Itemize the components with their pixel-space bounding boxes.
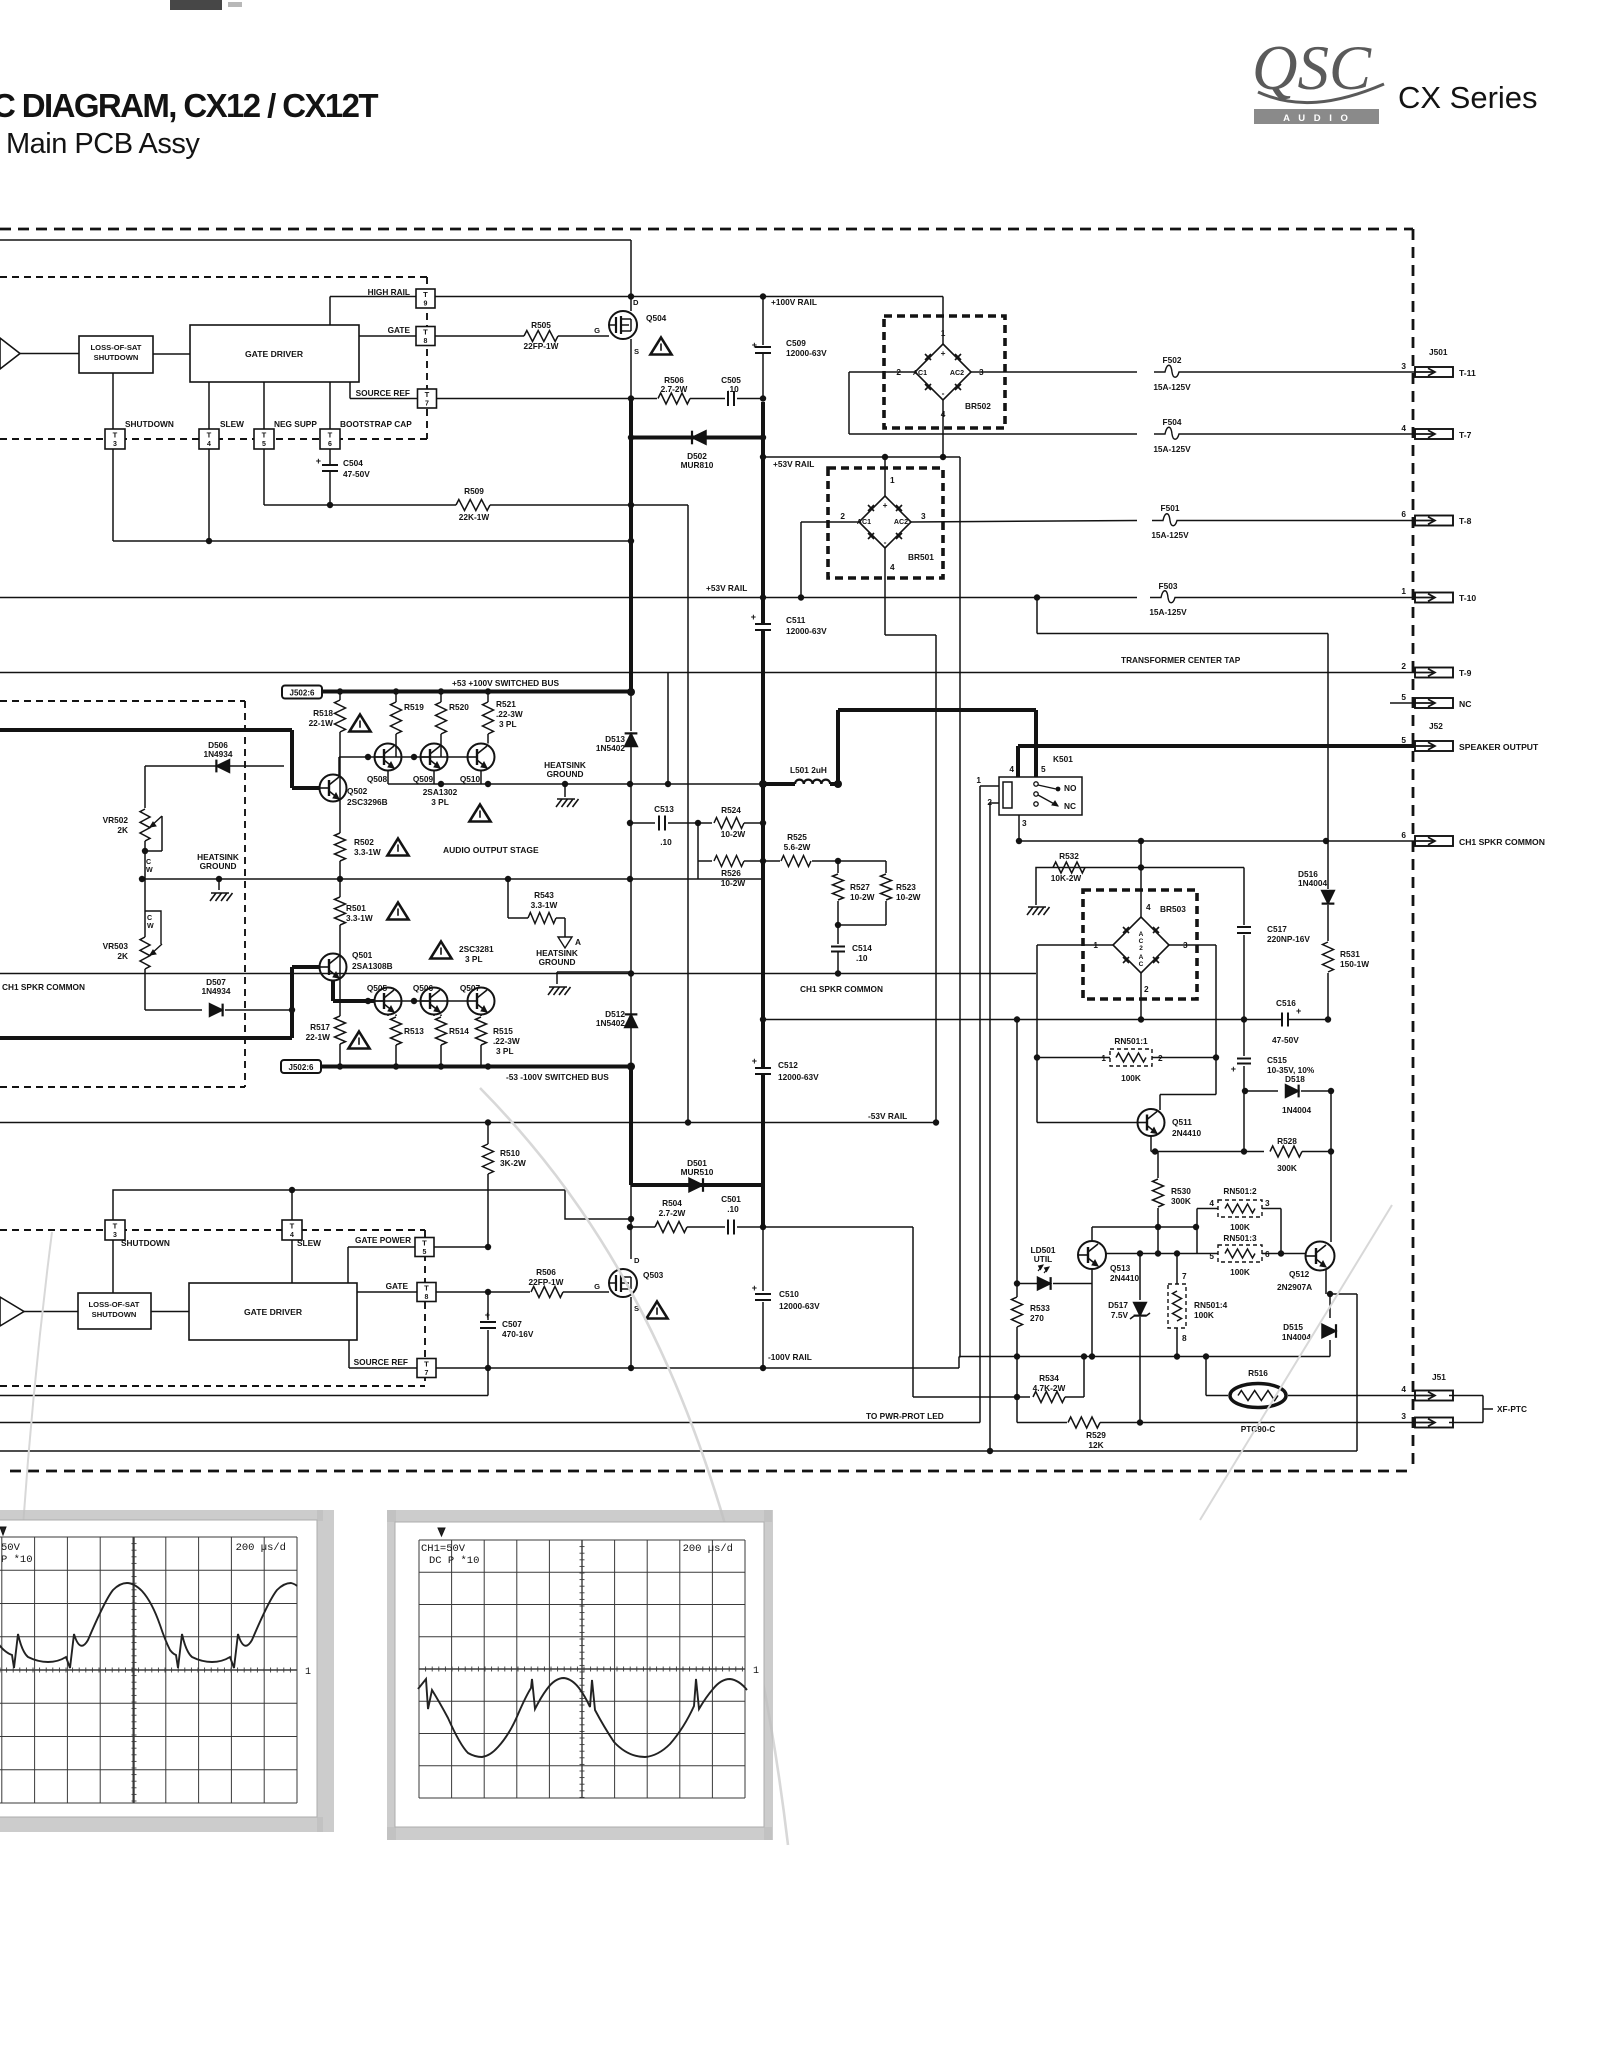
terminal T7 bottom — [417, 1359, 436, 1378]
svg-text:R505: R505 — [531, 320, 551, 330]
svg-text:12000-63V: 12000-63V — [778, 1072, 819, 1082]
emitter stubs Q505-Q507 — [387, 1015, 389, 1017]
resistor R510 — [487, 1123, 489, 1145]
potentiometer VR503 — [144, 879, 146, 937]
svg-text:CX Series: CX Series — [1398, 80, 1538, 115]
svg-text:GROUND: GROUND — [539, 957, 576, 967]
svg-text:BOOTSTRAP CAP: BOOTSTRAP CAP — [340, 419, 412, 429]
J502:6 connector label bottom — [281, 1060, 321, 1073]
svg-text:C511: C511 — [786, 615, 806, 625]
svg-text:2K: 2K — [117, 825, 128, 835]
terminal T3 bottom — [105, 1220, 125, 1240]
svg-text:4: 4 — [1401, 423, 1406, 433]
thick +53V feed vertical — [761, 402, 765, 1227]
svg-text:R516: R516 — [1248, 1368, 1268, 1378]
svg-text:+: + — [752, 340, 757, 350]
terminal T8 — [416, 327, 435, 346]
svg-text:100K: 100K — [1194, 1310, 1214, 1320]
svg-text:R502: R502 — [354, 837, 374, 847]
svg-text:2: 2 — [840, 511, 845, 521]
bridge BR503 dashed box — [1083, 890, 1197, 999]
svg-text:3.3-1W: 3.3-1W — [346, 913, 373, 923]
svg-text:15A-125V: 15A-125V — [1149, 607, 1187, 617]
svg-text:R533: R533 — [1030, 1303, 1050, 1313]
svg-text:Q512: Q512 — [1289, 1269, 1310, 1279]
transistor Q505 — [375, 988, 402, 1015]
top-left scan smudge — [170, 0, 222, 10]
BR503 diamond — [1113, 917, 1169, 973]
svg-text:200 µs/d: 200 µs/d — [683, 1543, 733, 1555]
thick vertical Q504 source bus — [629, 399, 633, 693]
svg-text:1: 1 — [976, 775, 981, 785]
transistor Q506 — [421, 988, 448, 1015]
svg-text:3: 3 — [1265, 1198, 1270, 1208]
svg-text:GATE POWER: GATE POWER — [355, 1235, 411, 1245]
bottom long wire 2 pwr-prot — [0, 1422, 980, 1424]
svg-text:1N4004: 1N4004 — [1282, 1105, 1311, 1115]
svg-text:AC2: AC2 — [950, 369, 964, 377]
transformer center tap wire — [0, 672, 1415, 674]
svg-text:.10: .10 — [727, 1204, 739, 1214]
svg-text:R517: R517 — [310, 1022, 330, 1032]
svg-text:1N4934: 1N4934 — [201, 986, 230, 996]
resistor network RN501:2 — [1196, 1209, 1198, 1254]
svg-text:D518: D518 — [1285, 1074, 1305, 1084]
vertical x1017 upper — [1016, 1020, 1018, 1284]
diode D512 — [625, 1014, 638, 1027]
svg-text:C509: C509 — [786, 338, 806, 348]
svg-text:R526: R526 — [721, 868, 741, 878]
svg-text:7: 7 — [425, 1370, 429, 1377]
svg-text:Q501: Q501 — [352, 950, 373, 960]
resistor R501 — [335, 897, 346, 925]
node A marker — [558, 937, 572, 948]
svg-text:W: W — [146, 866, 153, 874]
svg-text:5: 5 — [1401, 692, 1406, 702]
svg-text:AC1: AC1 — [913, 369, 927, 377]
XF-PTC bracket — [1449, 1395, 1483, 1397]
svg-text:9: 9 — [424, 301, 428, 308]
fuse F501 — [1152, 514, 1188, 526]
transistor Q507 — [468, 988, 495, 1015]
svg-text:2: 2 — [1144, 984, 1149, 994]
vertical 698 link — [697, 861, 699, 879]
photo leader line right — [1200, 1205, 1392, 1520]
svg-text:12000-63V: 12000-63V — [786, 626, 827, 636]
capacitor C504 — [329, 449, 331, 465]
svg-text:SHUTDOWN: SHUTDOWN — [125, 419, 174, 429]
potentiometer VR502 — [144, 766, 146, 808]
terminal T4 bottom — [282, 1220, 302, 1240]
svg-text:AC2: AC2 — [894, 518, 908, 526]
BR502 diamond — [915, 344, 971, 400]
svg-text:100K: 100K — [1230, 1222, 1250, 1232]
resistor R523 — [838, 860, 886, 862]
svg-text:1: 1 — [305, 1667, 311, 1678]
svg-text:+: + — [941, 348, 946, 358]
svg-text:5: 5 — [262, 441, 266, 448]
relay K501 box — [999, 777, 1082, 815]
svg-text:47-50V: 47-50V — [343, 469, 370, 479]
svg-text:4: 4 — [1146, 902, 1151, 912]
svg-text:C DIAGRAM, CX12 / CX12T: C DIAGRAM, CX12 / CX12T — [0, 87, 378, 124]
svg-text:200 µs/d: 200 µs/d — [236, 1542, 286, 1554]
svg-text:+: + — [752, 1283, 757, 1293]
svg-text:270: 270 — [1030, 1313, 1044, 1323]
wire F502 to J501-3 — [1190, 371, 1415, 373]
svg-text:3: 3 — [113, 1232, 117, 1239]
svg-text:2K: 2K — [117, 951, 128, 961]
svg-text:C504: C504 — [343, 458, 363, 468]
warning triangle Q504 — [650, 338, 671, 355]
svg-text:Q507: Q507 — [460, 983, 481, 993]
dashed row bottom T3 T4 — [0, 1229, 425, 1231]
connector J52 pin5 speaker output — [1415, 741, 1453, 751]
svg-text:8: 8 — [1182, 1333, 1187, 1343]
svg-text:S: S — [634, 347, 639, 356]
svg-text:T-9: T-9 — [1459, 668, 1472, 678]
svg-text:Q508: Q508 — [367, 774, 388, 784]
oscilloscope photo 2 — [387, 1510, 772, 1522]
svg-text:BR503: BR503 — [1160, 904, 1186, 914]
svg-text:2SC3296B: 2SC3296B — [347, 797, 388, 807]
svg-text:CH1 SPKR COMMON: CH1 SPKR COMMON — [2, 982, 85, 992]
svg-text:1N4934: 1N4934 — [203, 749, 232, 759]
svg-text:T: T — [207, 431, 212, 440]
oscilloscope photo 2 trigger mark — [438, 1528, 445, 1536]
svg-text:Q504: Q504 — [646, 313, 667, 323]
capacitor C513 line — [630, 822, 655, 824]
svg-text:GATE DRIVER: GATE DRIVER — [245, 349, 304, 359]
svg-text:2N2907A: 2N2907A — [1277, 1282, 1312, 1292]
svg-text:NEG SUPP: NEG SUPP — [274, 419, 317, 429]
capacitor C514 — [837, 925, 839, 944]
transistor Q513 — [1078, 1241, 1106, 1269]
svg-text:C507: C507 — [502, 1319, 522, 1329]
svg-text:1N4004: 1N4004 — [1298, 878, 1327, 888]
diode D518 — [1245, 1090, 1278, 1092]
svg-text:NC: NC — [1459, 699, 1471, 709]
wire C505 to +100V node — [737, 398, 763, 400]
gate driver box ch2 — [189, 1283, 357, 1340]
wire triangle to LOS — [20, 353, 79, 355]
svg-text:R543: R543 — [534, 890, 554, 900]
svg-text:CH1=50V: CH1=50V — [421, 1543, 466, 1555]
svg-text:T-11: T-11 — [1459, 368, 1476, 378]
svg-text:22FP-1W: 22FP-1W — [523, 341, 558, 351]
warning triangle R517 — [348, 1032, 369, 1049]
svg-text:-: - — [942, 388, 945, 398]
resistor R531 — [1323, 942, 1334, 972]
oscilloscope photo 1 — [0, 1510, 323, 1521]
svg-text:6: 6 — [328, 441, 332, 448]
svg-text:.10: .10 — [660, 837, 672, 847]
svg-text:QSC: QSC — [1252, 33, 1372, 103]
svg-text:VR502: VR502 — [103, 815, 129, 825]
svg-text:SOURCE REF: SOURCE REF — [354, 1357, 408, 1367]
svg-text:R531: R531 — [1340, 949, 1360, 959]
svg-text:Q509: Q509 — [413, 774, 434, 784]
svg-text:R518: R518 — [313, 708, 333, 718]
terminal T5 bottom — [415, 1238, 434, 1257]
diode D515 — [1329, 1294, 1331, 1318]
svg-text:-100V RAIL: -100V RAIL — [768, 1352, 812, 1362]
svg-text:T: T — [113, 431, 118, 440]
svg-text:D: D — [633, 298, 639, 307]
transistor Q512 — [1306, 1242, 1335, 1271]
wire BR502 pin2 to F504 — [849, 371, 915, 373]
svg-text:C514: C514 — [852, 943, 872, 953]
wire T9 to Q504 drain node — [435, 296, 631, 298]
svg-text:T: T — [424, 1360, 429, 1369]
svg-text:47-50V: 47-50V — [1272, 1035, 1299, 1045]
svg-text:D517: D517 — [1108, 1300, 1128, 1310]
svg-text:100K: 100K — [1121, 1073, 1141, 1083]
svg-text:-53V RAIL: -53V RAIL — [868, 1111, 907, 1121]
warning triangle R502 — [387, 839, 408, 856]
svg-text:1N5402: 1N5402 — [596, 1018, 625, 1028]
svg-text:J52: J52 — [1429, 721, 1443, 731]
resistor R504 — [630, 1226, 655, 1228]
svg-text:T-10: T-10 — [1459, 593, 1476, 603]
relay coil — [1003, 782, 1012, 808]
svg-text:1: 1 — [753, 1666, 759, 1677]
svg-text:2.7-2W: 2.7-2W — [659, 1208, 686, 1218]
svg-text:10K-2W: 10K-2W — [1051, 873, 1082, 883]
svg-text:C: C — [1139, 938, 1144, 945]
svg-text:7: 7 — [425, 401, 429, 408]
resistor R509 — [456, 500, 490, 511]
svg-text:F504: F504 — [1163, 417, 1182, 427]
-100V rail jog — [958, 1357, 960, 1369]
capacitor C505 — [729, 391, 733, 406]
resistor R515 — [480, 1015, 482, 1017]
Q511 base wire — [1037, 1122, 1137, 1124]
svg-text:SPEAKER OUTPUT: SPEAKER OUTPUT — [1459, 742, 1539, 752]
transistor Q511 — [1138, 1109, 1165, 1136]
capacitor C510 — [755, 1295, 771, 1299]
thick drive wire to Q501 — [0, 1036, 292, 1040]
svg-text:T: T — [425, 390, 430, 399]
svg-text:J51: J51 — [1432, 1372, 1446, 1382]
resistor R525 — [763, 860, 780, 862]
wire top rail to Q504 drain — [0, 239, 631, 241]
wires T3 T4 down — [112, 1240, 114, 1294]
photo leader arc middle — [480, 1088, 788, 1845]
svg-text:2SC3281: 2SC3281 — [459, 944, 494, 954]
svg-text:2SA1302: 2SA1302 — [423, 787, 458, 797]
svg-text:+53V RAIL: +53V RAIL — [706, 583, 747, 593]
svg-text:A: A — [575, 937, 581, 947]
svg-text:3: 3 — [921, 511, 926, 521]
warning triangle R501 — [387, 903, 408, 920]
svg-text:R532: R532 — [1059, 851, 1079, 861]
svg-text:L501 2uH: L501 2uH — [790, 765, 827, 775]
wire LOS to gate driver — [153, 353, 190, 355]
svg-text:5: 5 — [423, 1249, 427, 1256]
svg-text:22-1W: 22-1W — [306, 1032, 331, 1042]
svg-text:+: + — [752, 1056, 757, 1066]
svg-text:BR501: BR501 — [908, 552, 934, 562]
diode D506 — [290, 766, 294, 788]
protection common bus — [959, 1356, 1330, 1358]
inner dashed box ch1 gate driver — [0, 276, 427, 278]
wire Q504 source to R506 — [631, 398, 657, 400]
vertical transformer tap branch — [667, 673, 669, 785]
resistor R514 — [440, 1015, 442, 1017]
CH1 spkr common wire — [0, 973, 1036, 975]
svg-text:TRANSFORMER CENTER TAP: TRANSFORMER CENTER TAP — [1121, 655, 1241, 665]
svg-text:DC P *10: DC P *10 — [429, 1555, 479, 1567]
svg-text:D: D — [634, 1256, 640, 1265]
svg-text:15A-125V: 15A-125V — [1153, 444, 1191, 454]
svg-text:R519: R519 — [404, 702, 424, 712]
svg-text:3 PL: 3 PL — [496, 1046, 514, 1056]
svg-text:C515: C515 — [1267, 1055, 1287, 1065]
op-amp triangle ch2 — [0, 1297, 24, 1326]
svg-text:P *10: P *10 — [1, 1554, 33, 1566]
wire BR502 pin1 — [942, 297, 944, 345]
svg-text:XF-PTC: XF-PTC — [1497, 1404, 1527, 1414]
wire +100V rail — [630, 297, 632, 312]
bottom long wire 1 — [0, 1395, 488, 1397]
svg-text:SLEW: SLEW — [297, 1238, 321, 1248]
svg-text:+: + — [1231, 1064, 1236, 1074]
svg-text:R523: R523 — [896, 882, 916, 892]
bridge rectifier BR501 dashed box — [828, 468, 943, 578]
svg-text:Q502: Q502 — [347, 786, 368, 796]
svg-text:10-2W: 10-2W — [721, 878, 746, 888]
capacitor C501 — [687, 1226, 725, 1228]
+53V rail long wire — [0, 597, 1137, 599]
svg-text:K501: K501 — [1053, 754, 1073, 764]
fuse F502 — [1154, 365, 1190, 377]
+53V rail wire to bridges — [760, 454, 766, 460]
resistor R517 — [335, 1016, 346, 1044]
svg-text:5: 5 — [1401, 735, 1406, 745]
svg-text:10-2W: 10-2W — [896, 892, 921, 902]
svg-text:12000-63V: 12000-63V — [779, 1301, 820, 1311]
svg-text:4: 4 — [1009, 764, 1014, 774]
svg-text:100K: 100K — [1230, 1267, 1250, 1277]
wire R506 to C505 — [690, 398, 725, 400]
svg-text:2SA1308B: 2SA1308B — [352, 961, 393, 971]
svg-text:NO: NO — [1064, 783, 1077, 793]
wire BR501 pin3 to F501 — [911, 521, 1137, 523]
svg-text:-53 -100V SWITCHED BUS: -53 -100V SWITCHED BUS — [506, 1072, 609, 1082]
connector J52 pin6 CH1 spkr common — [1415, 836, 1453, 846]
svg-text:T: T — [290, 1222, 295, 1231]
svg-text:220NP-16V: 220NP-16V — [1267, 934, 1310, 944]
diode D502 on thick wire — [631, 436, 763, 440]
resistor R524 — [698, 822, 712, 824]
terminal T9 — [416, 289, 435, 308]
svg-text:3: 3 — [1401, 1411, 1406, 1421]
svg-text:150-1W: 150-1W — [1340, 959, 1369, 969]
svg-text:4: 4 — [1209, 1198, 1214, 1208]
resistor R534 — [913, 1396, 1030, 1398]
svg-text:T: T — [422, 1239, 427, 1248]
svg-text:T: T — [423, 290, 428, 299]
svg-text:.22-3W: .22-3W — [493, 1036, 520, 1046]
svg-text:50V: 50V — [1, 1542, 21, 1554]
diode D513 — [630, 692, 632, 731]
transistor Q502 — [320, 775, 347, 802]
svg-text:22FP-1W: 22FP-1W — [528, 1277, 563, 1287]
resistor R521 — [487, 692, 489, 703]
svg-text:J501: J501 — [1429, 347, 1448, 357]
resistor R543 — [507, 879, 509, 918]
-100V rail — [436, 1367, 959, 1369]
svg-text:HIGH RAIL: HIGH RAIL — [368, 287, 410, 297]
wire T8 to R505 — [435, 335, 524, 337]
connector J501 pin3 T-11 — [1415, 367, 1453, 377]
svg-text:3: 3 — [113, 441, 117, 448]
svg-text:-: - — [884, 537, 887, 547]
resistor R533 — [1016, 1284, 1018, 1298]
transistor Q509 — [421, 744, 448, 771]
audio stage dashed box — [0, 700, 245, 702]
thick drive wire to Q502 — [0, 728, 292, 732]
resistor R529 — [1017, 1422, 1067, 1424]
connector J501 pin4 T-7 — [1415, 429, 1453, 439]
warning triangle 2SA1302 — [469, 805, 490, 822]
svg-text:+53 +100V SWITCHED BUS: +53 +100V SWITCHED BUS — [452, 678, 559, 688]
svg-text:300K: 300K — [1277, 1163, 1297, 1173]
svg-text:+: + — [751, 612, 756, 622]
resistor R513 — [395, 1015, 397, 1017]
svg-text:G: G — [594, 1282, 600, 1291]
svg-text:C513: C513 — [654, 804, 674, 814]
loss-of-sat shutdown box ch2 — [78, 1293, 151, 1329]
svg-text:300K: 300K — [1171, 1196, 1191, 1206]
thermistor R516 — [1205, 1357, 1207, 1396]
J502:6 connector label top — [282, 686, 322, 699]
wire center tap drop — [1036, 598, 1038, 634]
svg-text:7: 7 — [1182, 1271, 1187, 1281]
Q513 emitter bus to RN501:3 — [1106, 1253, 1197, 1255]
svg-text:T: T — [328, 431, 333, 440]
wire BR503 pin3 — [1169, 944, 1216, 946]
thick bus to D501 — [629, 1067, 633, 1186]
svg-text:LOSS-OF-SAT: LOSS-OF-SAT — [89, 1300, 140, 1309]
svg-text:SOURCE REF: SOURCE REF — [356, 388, 410, 398]
svg-text:R530: R530 — [1171, 1186, 1191, 1196]
wire BR502 pin3 to F502 — [971, 371, 1137, 373]
connector J501 pin6 T-8 — [1415, 516, 1453, 526]
svg-text:2N4410: 2N4410 — [1110, 1273, 1139, 1283]
svg-text:+100V RAIL: +100V RAIL — [771, 297, 817, 307]
resistor R518 — [339, 692, 341, 701]
wire BR503 pin4 — [1140, 841, 1142, 917]
svg-text:Q513: Q513 — [1110, 1263, 1131, 1273]
wire R502 chain — [339, 757, 341, 833]
svg-text:J502:6: J502:6 — [290, 689, 315, 698]
svg-text:T-8: T-8 — [1459, 516, 1472, 526]
terminal T7 — [418, 389, 437, 408]
vertical from R509 line — [687, 505, 689, 1123]
photo leader line left — [18, 1232, 52, 1608]
svg-text:4: 4 — [207, 441, 211, 448]
wire gate ch1 — [359, 335, 416, 337]
svg-text:RN501:2: RN501:2 — [1223, 1186, 1257, 1196]
svg-text:Q511: Q511 — [1172, 1117, 1192, 1127]
capacitor C516 — [1283, 1013, 1287, 1027]
svg-text:R534: R534 — [1039, 1373, 1059, 1383]
wire BR501 pin2 to +53V rail — [801, 521, 859, 523]
wire T5/T6 row to R509 — [263, 449, 265, 506]
relay contacts — [1034, 782, 1038, 786]
